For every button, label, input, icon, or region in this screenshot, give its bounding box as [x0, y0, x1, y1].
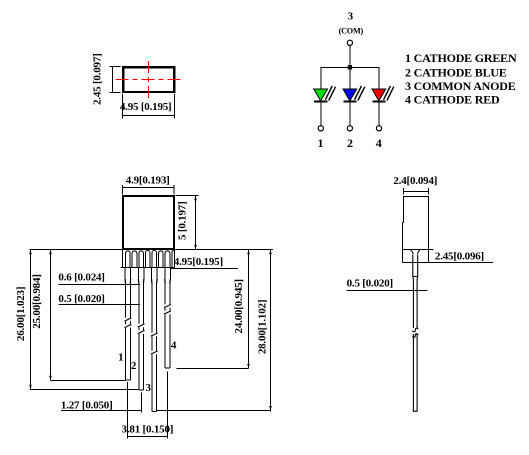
svg-text:4: 4 — [171, 340, 177, 352]
svg-text:5 [0.197]: 5 [0.197] — [177, 201, 189, 240]
leader 1.27 + dimension line — [61, 410, 142, 412]
lead 4 — [165, 268, 171, 368]
dimension 2.4 extension lines — [403, 188, 405, 195]
svg-text:2.45 [0.097]: 2.45 [0.097] — [91, 53, 103, 105]
lead 3 — [152, 268, 158, 412]
svg-text:2.4[0.094]: 2.4[0.094] — [393, 175, 437, 187]
svg-text:(COM): (COM) — [339, 27, 364, 36]
extension below lead1 — [127, 382, 129, 439]
dimension 25.00 dimension line — [50, 250, 52, 381]
terminal circle pin 3 — [347, 40, 352, 45]
svg-text:0.5 [0.020]: 0.5 [0.020] — [58, 293, 104, 305]
band left edge — [122, 250, 124, 268]
LED D2 light slashes — [355, 86, 362, 100]
side body base band — [403, 250, 429, 263]
dimension 28.00 dimension line — [270, 250, 272, 412]
svg-text:4.9[0.193]: 4.9[0.193] — [126, 175, 170, 187]
leader 0.5 — [59, 304, 140, 306]
svg-text:1.27 [0.050]: 1.27 [0.050] — [61, 399, 113, 411]
wire horizontal bus — [321, 67, 380, 69]
LED D2 cathode bar — [343, 101, 356, 103]
svg-text:0.6 [0.024]: 0.6 [0.024] — [58, 271, 104, 283]
extension below lead4 — [167, 372, 169, 439]
LED D1 cathode bar — [314, 101, 327, 103]
break marks lead at x=154.3 — [151, 333, 158, 355]
svg-text:3: 3 — [145, 382, 151, 394]
leader 4.95 underline — [171, 268, 238, 270]
break marks side lead — [412, 328, 418, 337]
epoxy rib — [144, 253, 146, 268]
epoxy rib — [131, 253, 133, 268]
taper tick — [413, 276, 418, 278]
svg-text:4: 4 — [376, 136, 382, 150]
dimension 4.95 extension lines — [122, 94, 124, 119]
svg-text:25.00[0.984]: 25.00[0.984] — [31, 274, 43, 328]
lead 1 — [125, 268, 130, 380]
extension line lead3 bottom (28.00) — [157, 410, 271, 412]
svg-text:2: 2 — [131, 360, 137, 372]
LED D3 light slashes — [384, 86, 391, 100]
dimension arrowheads — [29, 196, 272, 410]
lead comb (lead wide tops and epoxy ribs in seating band) — [126, 250, 175, 267]
extension line lead1 bottom (25.00) — [51, 380, 126, 382]
svg-text:2: 2 — [347, 136, 353, 150]
wire cathode green to pin1 — [320, 102, 322, 126]
centerline vertical (red dash-dot) — [148, 61, 150, 100]
band bottom edge — [121, 267, 175, 269]
svg-text:1: 1 — [317, 136, 323, 150]
top view body outline — [123, 67, 174, 92]
break marks lead at x=167.5 — [164, 304, 171, 314]
svg-text:1 CATHODE GREEN: 1 CATHODE GREEN — [405, 51, 517, 65]
dimension 5 dimension line — [195, 196, 197, 250]
break marks lead at x=127.9 — [125, 318, 132, 328]
wire cathode red to pin4 — [378, 102, 380, 126]
lead 2 — [138, 268, 144, 390]
extension below lead2 — [141, 393, 143, 413]
svg-text:3: 3 — [348, 11, 354, 23]
svg-text:4.95 [0.195]: 4.95 [0.195] — [120, 101, 172, 113]
leader 0.6 — [59, 284, 140, 286]
wire to blue anode — [349, 68, 351, 90]
svg-text:26.00[1.023]: 26.00[1.023] — [15, 287, 27, 341]
side body outline — [403, 197, 429, 250]
wire cathode blue to pin2 — [349, 102, 351, 126]
wire to red anode — [378, 67, 380, 90]
terminal circle pin 4 — [376, 126, 381, 131]
front body outline — [123, 196, 174, 249]
lead 1 wide top — [125, 253, 127, 268]
svg-text:1: 1 — [118, 352, 123, 364]
dimension 2.45 dimension line — [112, 67, 114, 93]
break marks lead at x=141.1 — [138, 324, 145, 334]
svg-text:24.00[0.945]: 24.00[0.945] — [233, 279, 245, 333]
svg-text:4 CATHODE RED: 4 CATHODE RED — [405, 93, 500, 107]
dimension 5 extension line top — [176, 195, 199, 197]
centerline horizontal (red dash-dot) — [115, 79, 181, 81]
svg-text:0.5 [0.020]: 0.5 [0.020] — [347, 277, 393, 289]
wire from pin3 to junction — [349, 45, 351, 67]
dimension 4.9 dimension line — [123, 187, 175, 189]
dimension 26.00 dimension line — [30, 250, 32, 390]
epoxy rib — [171, 253, 173, 268]
svg-text:3.81 [0.150]: 3.81 [0.150] — [122, 424, 174, 436]
epoxy rib — [158, 253, 160, 268]
extension line lead2 bottom (26.00) — [31, 389, 139, 391]
side lead — [413, 255, 418, 411]
leader 0.5 underline — [347, 290, 428, 292]
lead 3 wide top — [151, 253, 153, 268]
band right edge — [174, 250, 176, 268]
svg-text:2.45[0.096]: 2.45[0.096] — [435, 251, 484, 263]
dimension 3.81 dimension line — [128, 436, 168, 438]
junction node — [348, 65, 352, 69]
svg-text:2 CATHODE BLUE: 2 CATHODE BLUE — [405, 66, 507, 80]
side body lower step — [403, 223, 404, 250]
svg-text:3 COMMON ANODE: 3 COMMON ANODE — [405, 79, 516, 93]
LED D3 cathode bar — [372, 101, 385, 103]
lead 4 wide top — [164, 253, 166, 268]
dimension 4.95 dimension line — [123, 115, 175, 117]
dimension 2.45 extension lines — [110, 66, 121, 68]
LED D1 green triangle — [314, 89, 328, 101]
svg-text:4.95[0.195]: 4.95[0.195] — [174, 256, 223, 268]
dimension 2.4 dimension line — [404, 191, 429, 193]
LED D3 red triangle — [372, 89, 386, 101]
extension line at body bottom (shared) — [30, 249, 274, 251]
terminal circle pin 2 — [347, 126, 352, 131]
LED D1 light slashes — [325, 86, 332, 100]
terminal circle pin 1 — [318, 126, 323, 131]
lead 2 wide top — [138, 253, 140, 268]
side lead funnel — [411, 250, 420, 254]
dimension 24.00 dimension line — [248, 250, 250, 369]
extension line lead4 bottom (24.00) — [177, 368, 249, 370]
svg-text:28.00[1.102]: 28.00[1.102] — [257, 300, 269, 354]
body bottom short extension right — [429, 249, 434, 251]
wire to green anode — [320, 67, 322, 90]
dimension 4.9 extension lines — [122, 185, 124, 195]
LED D2 blue triangle — [343, 89, 357, 101]
side body bottom edge extension to 2.45 text — [403, 262, 494, 264]
